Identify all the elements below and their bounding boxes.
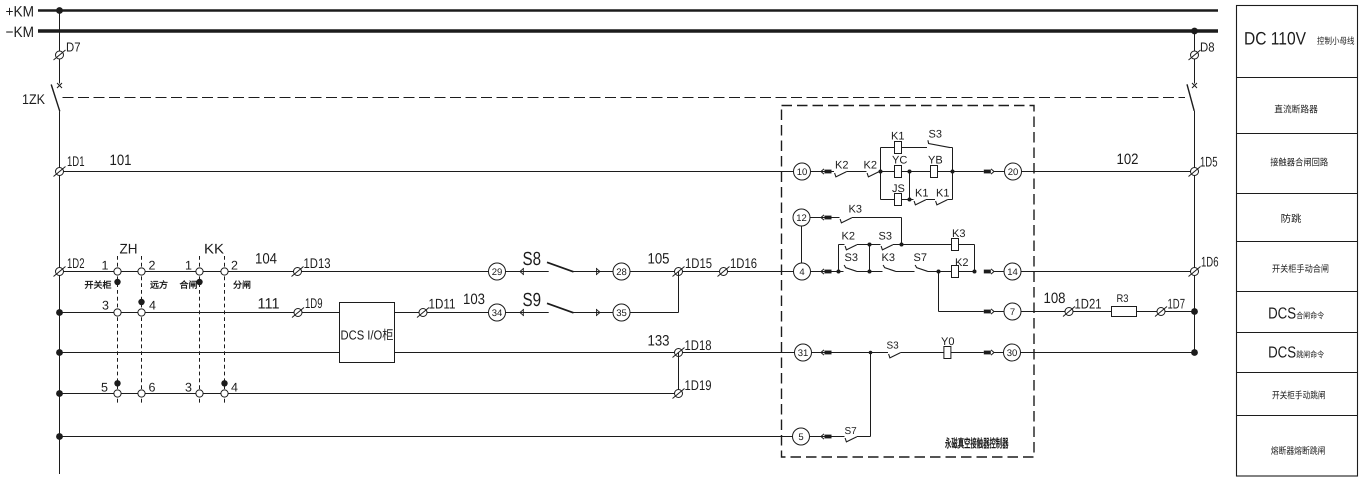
svg-text:5: 5 (101, 381, 108, 395)
resistor R3 (1112, 307, 1137, 317)
svg-text:S3: S3 (887, 341, 900, 352)
svg-text:开关柜手动跳闸: 开关柜手动跳闸 (1272, 390, 1326, 401)
svg-text:DCS: DCS (1268, 306, 1296, 323)
switch KK dashed columns (199, 256, 201, 404)
node 31 (795, 344, 812, 361)
svg-text:DCS: DCS (1268, 345, 1296, 362)
coil JS (895, 194, 902, 206)
wire left vertical bus (59, 11, 61, 84)
plug connector to node 20 (984, 170, 991, 174)
coil K3 (952, 239, 959, 251)
junction left bus +KM (56, 7, 63, 14)
svg-text:Y0: Y0 (941, 336, 954, 348)
wire 102 row (1022, 171, 1195, 173)
terminal 1D7 (1155, 307, 1167, 317)
terminal D8 (1189, 50, 1201, 60)
coil K1 (895, 142, 902, 154)
plug connector to node 7 (984, 310, 991, 314)
wire top branch (881, 147, 928, 149)
svg-text:D8: D8 (1200, 39, 1215, 54)
svg-text:开关柜手动合闸: 开关柜手动合闸 (1272, 263, 1329, 275)
svg-text:K3: K3 (849, 203, 862, 215)
terminal 1D5 (1189, 167, 1201, 177)
terminal 1D6 (1189, 267, 1201, 277)
svg-text:1D9: 1D9 (305, 295, 323, 311)
svg-text:102: 102 (1117, 151, 1139, 168)
svg-text:D7: D7 (66, 39, 81, 54)
svg-text:S3: S3 (845, 252, 858, 264)
junction bus row 393 (56, 390, 63, 397)
wire K3 drop to upper branch (901, 218, 903, 245)
node 30 (1004, 344, 1021, 361)
dashed mechanical link 1ZK (63, 97, 1186, 99)
svg-text:DCS I/O柜: DCS I/O柜 (341, 328, 394, 343)
svg-text:12: 12 (796, 213, 807, 224)
svg-text:R3: R3 (1117, 293, 1129, 305)
switch ZH contacts 3-4 (114, 309, 121, 316)
wire 14 to 1D6 (1021, 271, 1195, 273)
node YC-YB (908, 170, 912, 174)
svg-text:S3: S3 (929, 129, 942, 141)
wire upper branch right drop (974, 245, 976, 272)
junction bus row 111 (56, 309, 63, 316)
svg-text:YC: YC (892, 155, 907, 167)
plug connector row 12 (821, 215, 824, 220)
node upper K2-S3 (868, 243, 872, 247)
terminal 1D18 (673, 348, 685, 358)
legend table (1237, 6, 1358, 477)
node 7 (1004, 303, 1021, 320)
switch KK contacts 3-4 (196, 390, 203, 397)
svg-text:1D1: 1D1 (67, 153, 85, 169)
svg-text:1D16: 1D16 (730, 255, 757, 271)
contact S3 row 31 (889, 353, 901, 358)
svg-text:1D5: 1D5 (1200, 154, 1218, 170)
svg-text:1: 1 (102, 258, 109, 272)
node 4 (794, 263, 811, 280)
plug connector row 31 (821, 350, 824, 355)
svg-text:14: 14 (1007, 267, 1018, 278)
svg-text:2: 2 (231, 258, 238, 272)
svg-text:1D11: 1D11 (429, 296, 456, 312)
breaker 1ZK right pole (1187, 83, 1197, 111)
svg-text:6: 6 (149, 381, 156, 395)
svg-text:1ZK: 1ZK (22, 91, 46, 107)
svg-text:永磁真空接触器控制器: 永磁真空接触器控制器 (944, 437, 1009, 451)
svg-text:远方: 远方 (150, 280, 168, 290)
svg-text:S8: S8 (523, 249, 542, 270)
node 28 (613, 263, 630, 280)
svg-text:35: 35 (616, 308, 627, 319)
wire 103 row (395, 312, 549, 314)
svg-text:10: 10 (797, 167, 808, 178)
svg-text:1D7: 1D7 (1168, 296, 1186, 312)
node upper K3 drop (900, 243, 904, 247)
switch ZH dashed columns (117, 256, 119, 404)
svg-text:20: 20 (1008, 167, 1019, 178)
wire JS node vertical (909, 172, 911, 200)
node 12 (793, 209, 810, 226)
svg-text:30: 30 (1007, 348, 1018, 359)
svg-text:1: 1 (185, 258, 192, 272)
bus -KM (38, 29, 1218, 32)
wire parallel block verticals (880, 148, 882, 200)
svg-text:熔断器熔断跳闸: 熔断器熔断跳闸 (1271, 445, 1326, 457)
svg-text:1D19: 1D19 (685, 377, 712, 393)
svg-text:1D18: 1D18 (685, 337, 712, 353)
svg-text:1D2: 1D2 (67, 255, 85, 271)
contact K3 main row (883, 265, 895, 271)
junction bus row 133 (56, 349, 63, 356)
svg-text:K2: K2 (842, 230, 855, 242)
terminal 1D16 (718, 267, 730, 277)
box DCS I/O (340, 303, 395, 363)
svg-text:接触器合闸回路: 接触器合闸回路 (1270, 156, 1328, 168)
svg-text:DC 110V: DC 110V (1244, 29, 1306, 49)
svg-text:合闸命令: 合闸命令 (1296, 311, 1324, 321)
contact S3 top branch (928, 140, 950, 147)
KK position dot below contact 1 (196, 279, 202, 285)
svg-text:103: 103 (463, 291, 485, 308)
terminal 1D15 (673, 267, 685, 277)
svg-text:3: 3 (185, 381, 192, 395)
switch KK contacts 1-2 (196, 268, 203, 275)
plug connector row 10 (821, 169, 824, 174)
svg-text:1D21: 1D21 (1075, 296, 1102, 312)
plug connector to node 14 (984, 270, 991, 274)
contact S3 main row (844, 265, 856, 271)
svg-text:4: 4 (799, 267, 804, 278)
terminal 1D13 (292, 267, 304, 277)
wire right vertical bus (1194, 31, 1196, 84)
connector chevrons S8 (520, 268, 524, 274)
svg-text:29: 29 (492, 267, 503, 278)
wire link node12-node4 (801, 226, 803, 263)
node 20 (1005, 163, 1022, 180)
bus +KM (38, 9, 1218, 12)
contact S7 row 5 (845, 437, 857, 442)
ZH position dot below contact 1 (114, 279, 120, 285)
svg-text:105: 105 (648, 251, 670, 268)
svg-text:31: 31 (798, 348, 809, 359)
node 29 (489, 263, 506, 280)
svg-text:直流断路器: 直流断路器 (1274, 105, 1318, 116)
svg-text:开关柜: 开关柜 (85, 280, 112, 290)
svg-text:1D6: 1D6 (1201, 254, 1219, 270)
svg-text:跳闸命令: 跳闸命令 (1296, 350, 1324, 360)
svg-text:1D13: 1D13 (304, 255, 331, 271)
breaker 1ZK left pole (51, 83, 62, 111)
node right of YB (951, 170, 955, 174)
wire upper node vertical (869, 245, 871, 272)
svg-text:JS: JS (892, 183, 905, 195)
svg-text:K2: K2 (835, 159, 848, 171)
svg-text:S3: S3 (879, 230, 892, 242)
svg-text:101: 101 (110, 152, 132, 169)
node 35 (613, 304, 630, 321)
node upper branch rejoin (973, 270, 977, 274)
svg-text:4: 4 (231, 381, 238, 395)
node main row to DCS close cmd (937, 270, 941, 274)
svg-text:3: 3 (102, 299, 109, 313)
terminal 1D1 (54, 167, 66, 177)
svg-text:28: 28 (616, 267, 627, 278)
junction right bus -KM (1191, 28, 1198, 35)
terminal 1D21 (1063, 307, 1075, 317)
controller dashed box (782, 106, 1035, 458)
contact K1 b bottom branch (936, 200, 948, 205)
wire upper branch left vertical (838, 245, 840, 272)
contact K2 a (835, 172, 847, 177)
node 34 (489, 304, 506, 321)
svg-text:K3: K3 (952, 228, 965, 240)
node 5 (793, 428, 810, 445)
wire 108 row (1021, 311, 1195, 313)
wire row 393 (60, 393, 679, 395)
contact S7 main row (915, 265, 927, 271)
wire middle branch (881, 171, 953, 173)
wire row 133 mid (395, 352, 795, 354)
terminal 1D11 (417, 308, 429, 318)
contact S3 upper branch (881, 245, 893, 250)
svg-text:1D15: 1D15 (685, 255, 712, 271)
svg-text:分闸: 分闸 (233, 280, 251, 290)
svg-text:K3: K3 (882, 252, 895, 264)
junction bus row 436 (56, 433, 63, 440)
svg-text:K1: K1 (936, 188, 949, 200)
svg-text:34: 34 (492, 308, 503, 319)
terminal 1D2 (54, 267, 66, 277)
switch ZH contacts 1-2 (114, 268, 121, 275)
wire 101 row (60, 171, 835, 173)
svg-text:S7: S7 (845, 426, 858, 437)
svg-text:YB: YB (928, 155, 943, 167)
ZH position dot above contact 5 (114, 380, 120, 386)
node main row under upper node (868, 270, 872, 274)
plug connector row 4 (821, 269, 824, 274)
wire row 271 (60, 271, 549, 273)
svg-text:K1: K1 (891, 131, 904, 143)
svg-text:K2: K2 (955, 257, 968, 269)
terminal 1D9 (292, 308, 304, 318)
svg-text:2: 2 (149, 258, 156, 272)
coil YB (931, 166, 938, 178)
coil K2 (952, 266, 959, 278)
node 10 (794, 163, 811, 180)
plug connector to node 30 (984, 351, 991, 355)
svg-text:5: 5 (798, 432, 803, 443)
svg-text:111: 111 (258, 296, 280, 313)
junction right bus row 108 (1191, 308, 1198, 315)
plug connector row 5 (821, 434, 824, 439)
wire 1D18 down to 1D19 (678, 353, 680, 394)
contact K2 upper branch (845, 245, 857, 250)
wire to node 20 (953, 171, 984, 173)
svg-text:KK: KK (204, 241, 225, 257)
wire S7 up to row 31 (870, 353, 872, 437)
terminal D7 (54, 50, 66, 60)
svg-text:S9: S9 (523, 290, 542, 311)
svg-text:K1: K1 (915, 188, 928, 200)
svg-text:104: 104 (255, 251, 277, 268)
KK position dot above contact 4 (221, 380, 227, 386)
svg-text:防跳: 防跳 (1281, 213, 1302, 225)
wire S9 branch up to 1D15 (678, 272, 680, 313)
contact K3 row 12 (840, 218, 852, 223)
svg-text:+KM: +KM (6, 3, 35, 20)
coil YC (895, 166, 902, 178)
svg-text:控制小母线: 控制小母线 (1317, 36, 1355, 46)
wire upper branch row (839, 244, 845, 246)
wire branch down to node 7 (938, 272, 940, 312)
svg-text:合闸: 合闸 (179, 280, 198, 290)
coil Y0 (944, 347, 951, 359)
contact K1 a bottom branch (914, 200, 926, 205)
wire row 111 (60, 312, 340, 314)
terminal 1D19 (673, 389, 685, 399)
svg-text:−KM: −KM (6, 24, 35, 41)
switch ZH contacts 5-6 (114, 390, 121, 397)
wire bottom branch (881, 199, 914, 201)
svg-text:4: 4 (149, 299, 156, 313)
connector chevrons S9 (520, 309, 524, 315)
junction right bus row 133 (1191, 349, 1198, 356)
ZH position dot above contact 4 (138, 299, 144, 305)
wire 30 to right bus (1021, 352, 1195, 354)
wire row 133 left (60, 352, 340, 354)
node S7 branch join (869, 351, 873, 355)
svg-text:108: 108 (1044, 290, 1066, 307)
node anti-pump left (879, 170, 883, 174)
svg-text:ZH: ZH (120, 241, 138, 257)
svg-text:S7: S7 (914, 252, 927, 264)
svg-text:133: 133 (648, 333, 670, 350)
node main row upper-branch start (837, 270, 841, 274)
svg-text:K2: K2 (864, 159, 877, 171)
svg-text:7: 7 (1010, 307, 1015, 318)
contact K2 b (867, 172, 879, 177)
wire row 436 (60, 436, 793, 438)
node 14 (1004, 263, 1021, 280)
